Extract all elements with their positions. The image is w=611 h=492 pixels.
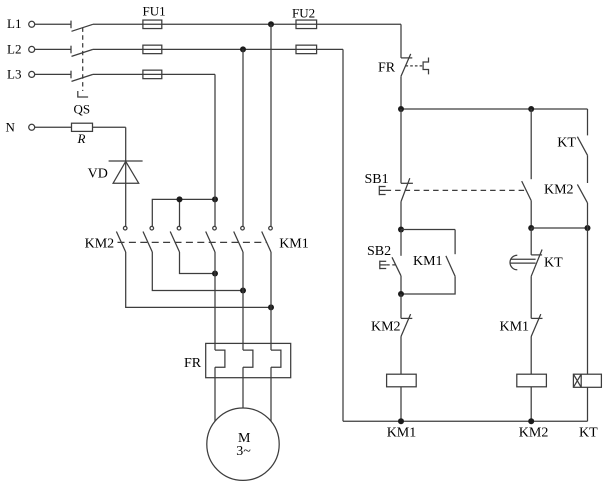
fuse FU2 pole 1 <box>296 20 317 29</box>
svg-text:FR: FR <box>378 60 396 75</box>
label KM1 coil <box>387 426 417 441</box>
wire FR to motor mid <box>242 367 244 408</box>
SB1 linkage dashed <box>386 189 526 191</box>
wire KM2 link top <box>152 199 215 226</box>
label KM1 interlock <box>500 320 530 335</box>
wire L3 QS to drop <box>93 73 215 75</box>
svg-text:L2: L2 <box>7 41 21 56</box>
contact KT NO <box>577 109 587 183</box>
wire right node to KT coil <box>587 228 589 374</box>
KT delay symbol <box>510 255 536 270</box>
svg-text:L1: L1 <box>7 16 21 31</box>
wire L2 to QS <box>35 48 71 50</box>
junction L2 drop <box>240 46 246 52</box>
terminal N <box>29 124 35 130</box>
junction start node <box>398 227 404 233</box>
wire L1 QS to control corner <box>93 23 401 25</box>
svg-text:KT: KT <box>557 135 576 150</box>
svg-text:QS: QS <box>74 102 91 117</box>
switch QS pole 3 <box>71 71 93 82</box>
label L1 <box>7 16 21 31</box>
FR reset dashed link <box>406 65 423 67</box>
wire L1 drop c6 <box>270 24 272 226</box>
junction mid node <box>528 225 534 231</box>
wire L1 to QS <box>35 23 71 25</box>
contact KM1 NC interlock <box>531 314 542 374</box>
wire c1 bottom to c6 <box>126 252 271 307</box>
motor M <box>207 408 279 480</box>
label KM2 main <box>85 237 115 252</box>
wire coil KM1 to rail <box>400 387 402 422</box>
label VD <box>88 167 108 182</box>
label FU1 <box>143 3 166 18</box>
wire c6 down to FR <box>270 252 272 350</box>
wire FR to motor left <box>214 367 216 421</box>
wire R to VD <box>93 126 126 128</box>
svg-text:FU1: FU1 <box>143 3 166 18</box>
junction bottom KM1 <box>398 418 404 424</box>
wire coil KM2 to rail <box>530 387 532 422</box>
switch QS pole 1 <box>71 21 93 32</box>
label KM2 interlock <box>371 320 401 335</box>
svg-text:KM2: KM2 <box>544 182 574 197</box>
svg-text:L3: L3 <box>7 66 21 81</box>
junction L1 drop <box>268 21 274 27</box>
contactor KM1 main contact 2 <box>234 226 245 252</box>
wire L3 to QS <box>35 73 71 75</box>
svg-text:KM2: KM2 <box>519 426 549 441</box>
label FU2 <box>292 6 315 21</box>
svg-text:KM2: KM2 <box>371 320 401 335</box>
svg-text:N: N <box>6 120 16 135</box>
svg-text:KM1: KM1 <box>413 254 443 269</box>
redraw wires through fuses FU1 <box>143 24 162 74</box>
contactor KM1 main contact 3 <box>262 226 273 252</box>
contact KM2 NC interlock <box>401 294 412 374</box>
terminal L2 <box>29 46 35 52</box>
label KT NO <box>557 135 576 150</box>
fuse FU1 pole 2 <box>143 45 162 54</box>
label KT delay <box>544 255 563 270</box>
junction c4 tap <box>212 196 218 202</box>
pushbutton SB1 NC <box>401 109 413 230</box>
wire FR to motor right <box>270 367 272 421</box>
junction c3 tap <box>177 196 183 202</box>
label SB2 <box>367 244 391 259</box>
label KM1 aux <box>413 254 443 269</box>
label L2 <box>7 41 21 56</box>
label KM1 main <box>279 237 309 252</box>
QS linkage dashed <box>82 28 84 92</box>
left return rail <box>342 49 344 421</box>
label FR control <box>378 60 396 75</box>
fuse FU2 pole 2 <box>296 45 317 54</box>
label KT coil <box>579 425 598 440</box>
terminal L1 <box>29 21 35 27</box>
main contacts linkage dashed <box>118 241 268 243</box>
contactor KM2 main contact 3 <box>170 226 181 252</box>
label QS <box>74 102 91 117</box>
label KM2 hold <box>544 182 574 197</box>
label R <box>77 131 86 146</box>
thermal relay FR box <box>206 343 291 377</box>
wire N to R <box>35 126 72 128</box>
wire mid node to right node <box>531 227 587 229</box>
svg-text:R: R <box>77 131 86 146</box>
svg-text:KT: KT <box>544 255 563 270</box>
diode VD <box>109 161 143 183</box>
wire KM2 tap c3 <box>179 199 181 226</box>
svg-text:VD: VD <box>88 167 108 182</box>
label L3 <box>7 66 21 81</box>
junction right node <box>585 225 591 231</box>
svg-text:KM1: KM1 <box>387 426 417 441</box>
svg-text:SB2: SB2 <box>367 244 391 259</box>
junction c4 bridge <box>212 271 218 277</box>
label M <box>238 431 251 446</box>
wire coil KT to rail <box>587 387 589 421</box>
redraw wires through fuses FU2 <box>296 24 317 49</box>
contact KT delayed NC <box>531 228 542 318</box>
SB2 actuator E <box>380 261 386 270</box>
junction top rail mid <box>528 106 534 112</box>
junction c5 bridge <box>240 288 246 294</box>
svg-text:KM2: KM2 <box>85 237 115 252</box>
FR heater 1 <box>215 350 225 367</box>
wire c2 bottom to c5 <box>152 252 243 291</box>
label KM2 coil <box>519 426 549 441</box>
control top rail <box>401 108 588 110</box>
contact KM2 NO hold <box>577 184 587 228</box>
label 3~ <box>236 444 251 459</box>
label N <box>6 120 16 135</box>
svg-text:KM1: KM1 <box>500 320 530 335</box>
svg-text:KT: KT <box>579 425 598 440</box>
coil KM2 <box>517 374 547 387</box>
wire VD vertical <box>125 127 127 226</box>
svg-text:3~: 3~ <box>236 444 251 459</box>
bottom rail <box>343 420 588 422</box>
junction c6 bridge <box>268 304 274 310</box>
contactor KM2 main contact 2 <box>143 226 154 252</box>
svg-text:SB1: SB1 <box>365 172 389 187</box>
wire L2 QS to left rail corner <box>93 48 343 50</box>
wire c3 bottom to c4 <box>180 252 216 274</box>
svg-text:KM1: KM1 <box>279 237 309 252</box>
wire c4 down to FR <box>214 252 216 350</box>
coil KT <box>573 374 601 387</box>
QS handle <box>78 91 88 97</box>
wire L2 drop c5 <box>242 49 244 226</box>
coil KM1 <box>387 374 417 387</box>
label SB1 <box>365 172 389 187</box>
wire node to KM1 aux <box>401 229 455 231</box>
resistor R <box>72 123 93 131</box>
junction bottom KM2 <box>528 418 534 424</box>
switch QS pole 2 <box>71 46 93 57</box>
SB1 actuator E <box>379 186 385 195</box>
contact KM1 aux NO <box>401 230 455 295</box>
FR reset symbol <box>423 58 428 75</box>
terminal L3 <box>29 71 35 77</box>
pushbutton SB2 NO <box>392 230 401 295</box>
svg-text:FU2: FU2 <box>292 6 315 21</box>
FR heater 2 <box>243 350 253 367</box>
wire L1 corner down control <box>400 24 402 58</box>
contactor KM1 main contact 1 <box>206 226 217 252</box>
wire c5 down to FR <box>242 252 244 350</box>
junction hold node <box>398 291 404 297</box>
wire L3 drop c4 <box>214 74 216 226</box>
contact SB1 NO <box>522 109 532 228</box>
junction top rail left <box>398 106 404 112</box>
SB2 linkage dashed <box>386 264 396 266</box>
thermal relay FR NC contact <box>401 54 412 109</box>
svg-text:FR: FR <box>184 356 202 371</box>
contactor KM2 main contact 1 <box>116 226 127 252</box>
fuse FU1 pole 1 <box>143 20 162 29</box>
label FR main <box>184 356 202 371</box>
fuse FU1 pole 3 <box>143 70 162 79</box>
FR heater 3 <box>271 350 281 367</box>
